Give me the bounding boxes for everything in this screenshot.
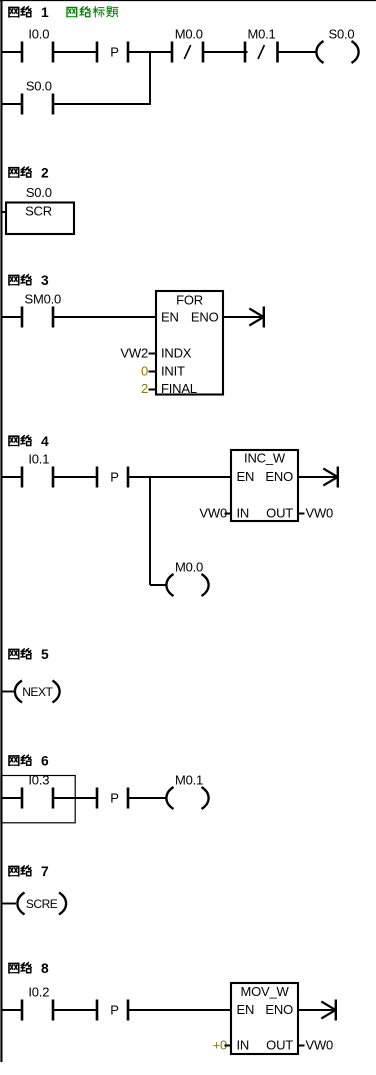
- wire rail to NEXT coil: [2, 691, 15, 693]
- svg-text:OUT: OUT: [266, 1037, 293, 1052]
- wire rail to SCRE coil: [2, 903, 16, 905]
- svg-text:INDX: INDX: [161, 346, 192, 361]
- svg-text:FINAL: FINAL: [161, 381, 197, 396]
- contact P (rising edge) network8: [96, 1000, 130, 1021]
- svg-text:S0.0: S0.0: [26, 78, 52, 93]
- box FOR: [156, 291, 223, 395]
- svg-text:P: P: [110, 1002, 118, 1017]
- contact I0.2: [21, 984, 55, 1020]
- svg-text:5: 5: [41, 647, 49, 662]
- svg-text:I0.2: I0.2: [28, 984, 49, 999]
- wire FOR ENO to arrow: [223, 316, 263, 318]
- operand VW0 -> IN: [199, 505, 231, 520]
- svg-text:6: 6: [41, 754, 49, 769]
- FOR box texts: [161, 292, 219, 396]
- coil S0.0: [316, 26, 358, 63]
- svg-text:EN: EN: [237, 469, 255, 484]
- svg-text:M0.1: M0.1: [175, 772, 203, 787]
- svg-text:NEXT: NEXT: [22, 685, 53, 699]
- network label 网络 8: [9, 961, 49, 976]
- svg-text:P: P: [110, 44, 118, 59]
- operand OUT -> VW0 network8: [298, 1037, 333, 1052]
- svg-text:P: P: [110, 469, 118, 484]
- wire I0.3 to P contact: [53, 797, 98, 799]
- network label 网络 3: [9, 273, 49, 288]
- network label 网络 1: [9, 5, 49, 20]
- network label 网络 6: [9, 754, 49, 769]
- wire rail to SCR box: [2, 211, 7, 213]
- wire rail to I0.1: [2, 476, 23, 478]
- box SCR: [6, 203, 74, 235]
- svg-text:SCR: SCR: [25, 203, 52, 218]
- contact M0.0 normally closed: [171, 26, 205, 62]
- operand 0 -> INIT: [141, 364, 156, 379]
- wire rung1b rail to S0.0 contact: [2, 103, 23, 105]
- wire P to MOV_W box: [128, 1009, 232, 1011]
- top border line: [0, 0, 376, 2]
- wire P to M0.0 contact: [128, 51, 173, 53]
- wire I0.0 to P contact: [53, 51, 98, 53]
- wire I0.2 to P contact: [53, 1009, 98, 1011]
- coil SCRE: [17, 893, 66, 915]
- operand OUT -> VW0: [298, 505, 333, 520]
- box INC_W: [231, 450, 298, 521]
- wire rung1 rail to I0.0: [2, 51, 23, 53]
- wire INC_W ENO to arrow: [298, 476, 337, 478]
- operand VW2 -> INDX: [120, 346, 156, 361]
- svg-text:FOR: FOR: [176, 292, 203, 307]
- INC_W box texts: [237, 451, 294, 521]
- svg-text:2: 2: [41, 165, 49, 180]
- continuation arrow network 3: [249, 307, 265, 328]
- svg-text:S0.0: S0.0: [26, 185, 52, 200]
- svg-text:ENO: ENO: [191, 309, 219, 324]
- contact SM0.0: [21, 291, 61, 327]
- svg-text:ENO: ENO: [265, 469, 293, 484]
- MOV_W box texts: [237, 984, 294, 1053]
- wire MOV_W ENO to arrow: [298, 1009, 335, 1011]
- network label 网络 4: [9, 434, 49, 449]
- svg-text:I0.1: I0.1: [28, 451, 49, 466]
- wire I0.1 to P contact: [53, 476, 98, 478]
- svg-text:IN: IN: [237, 505, 250, 520]
- contact I0.1: [21, 451, 55, 487]
- contact S0.0: [21, 78, 55, 114]
- selection cursor box: [1, 776, 75, 823]
- svg-text:M0.0: M0.0: [175, 559, 203, 574]
- svg-text:P: P: [110, 790, 118, 805]
- svg-text:3: 3: [41, 273, 49, 288]
- svg-text:VW0: VW0: [306, 1037, 334, 1052]
- operand +0 -> IN: [213, 1037, 231, 1052]
- wire P to INC_W box: [128, 476, 232, 478]
- svg-text:EN: EN: [161, 309, 179, 324]
- left power rail: [0, 0, 2, 1062]
- svg-text:I0.3: I0.3: [28, 772, 49, 787]
- svg-text:S0.0: S0.0: [329, 26, 355, 41]
- svg-text:INIT: INIT: [161, 364, 185, 379]
- svg-text:2: 2: [141, 381, 148, 396]
- svg-text:VW0: VW0: [306, 505, 334, 520]
- wire rail to SM0.0: [2, 316, 23, 318]
- box MOV_W: [231, 983, 298, 1054]
- svg-text:VW0: VW0: [199, 505, 227, 520]
- contact I0.3: [21, 772, 55, 808]
- svg-text:I0.0: I0.0: [28, 26, 49, 41]
- svg-text:MOV_W: MOV_W: [240, 984, 289, 999]
- svg-text:M0.1: M0.1: [247, 26, 275, 41]
- svg-text:VW2: VW2: [120, 346, 148, 361]
- branch vertical wire to M0.0 coil: [149, 477, 151, 585]
- wire S0.0 contact to junction: [53, 103, 152, 105]
- operand 2 -> FINAL: [141, 381, 156, 396]
- svg-text:4: 4: [41, 434, 49, 449]
- wire SM0.0 to FOR box EN: [53, 316, 157, 318]
- network label 网络 7: [9, 864, 49, 879]
- svg-text:SM0.0: SM0.0: [25, 291, 62, 306]
- svg-text:EN: EN: [237, 1002, 255, 1017]
- network title 网络标题 (green): [67, 7, 118, 17]
- wire M0.1 to coil S0.0: [278, 51, 318, 53]
- contact I0.0: [21, 26, 55, 62]
- svg-text:8: 8: [41, 961, 49, 976]
- svg-text:0: 0: [141, 364, 148, 379]
- contact P (rising edge) network4: [96, 467, 130, 488]
- svg-text:1: 1: [41, 5, 49, 20]
- contact P (rising edge) network6: [96, 788, 130, 809]
- svg-text:7: 7: [41, 864, 49, 879]
- contact P (rising edge): [96, 42, 130, 63]
- svg-text:SCRE: SCRE: [26, 897, 58, 911]
- svg-text:M0.0: M0.0: [175, 26, 203, 41]
- wire M0.0 to M0.1: [203, 51, 248, 53]
- coil M0.1: [166, 772, 208, 809]
- wire branch to coil M0.0: [150, 584, 167, 586]
- network label 网络 2: [9, 165, 49, 180]
- coil NEXT: [15, 681, 60, 703]
- svg-text:ENO: ENO: [265, 1002, 293, 1017]
- contact M0.1 normally closed: [244, 26, 279, 62]
- branch junction vertical wire: [149, 52, 151, 104]
- coil M0.0: [166, 559, 208, 596]
- svg-text:IN: IN: [237, 1037, 250, 1052]
- continuation arrow network 8: [321, 1000, 337, 1021]
- wire P to coil M0.1: [128, 797, 167, 799]
- wire rail to I0.2: [2, 1009, 23, 1011]
- network label 网络 5: [9, 647, 49, 662]
- svg-text:INC_W: INC_W: [244, 451, 286, 466]
- continuation arrow network 4: [323, 467, 339, 488]
- svg-text:OUT: OUT: [266, 505, 293, 520]
- wire rail to I0.3: [2, 797, 23, 799]
